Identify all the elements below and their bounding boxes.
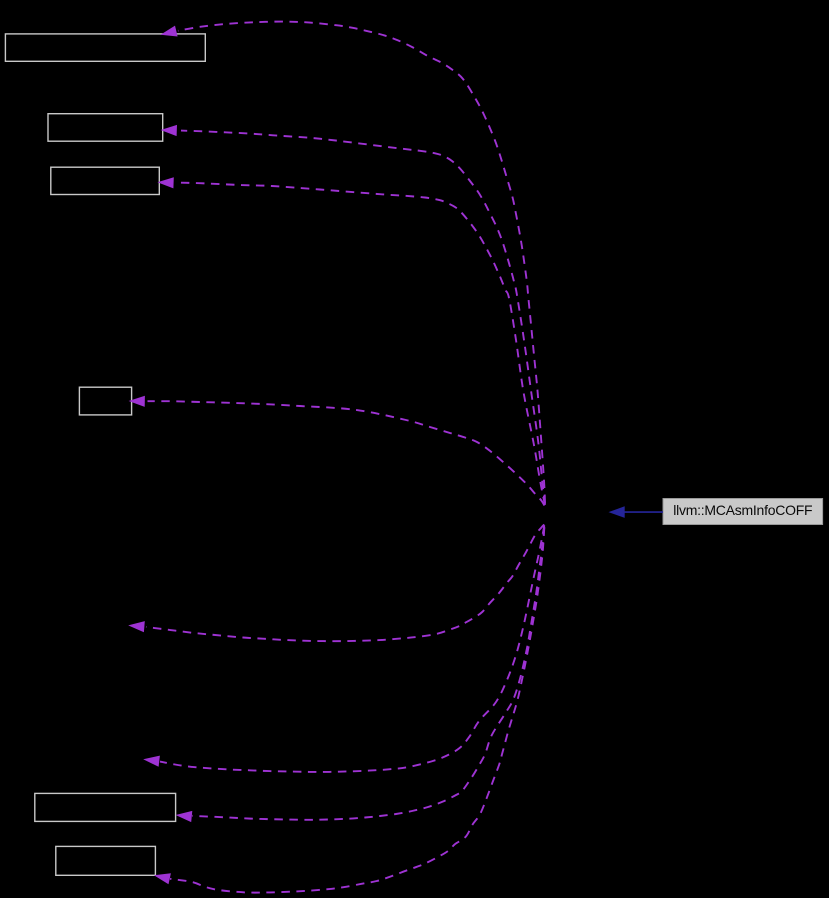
- node MCAsmInfo member 1 (top-left): [5, 34, 205, 61]
- node MCAsmInfo member 6 (bottom): [56, 846, 156, 875]
- arrowhead of edge to member 6: [154, 873, 171, 884]
- arrowhead of edge to hidden node A: [128, 621, 145, 632]
- node MCAsmInfo member 4 (small): [79, 387, 131, 415]
- wire: solid inheritance edge: [624, 511, 663, 513]
- wire: dashed edge to hidden node B: [160, 526, 544, 772]
- arrowhead of edge to member 2: [161, 125, 177, 136]
- wire: dashed edge to member 1: [178, 22, 545, 503]
- node MCAsmInfo member 5 (bottom): [35, 793, 176, 821]
- wire: dashed edge to hidden node A: [146, 525, 544, 642]
- wire: dashed edge to member 3: [177, 183, 545, 505]
- node MCAsmInfo member 3: [51, 167, 160, 194]
- svg-text:llvm::MCAsmInfoCOFF: llvm::MCAsmInfoCOFF: [673, 502, 812, 518]
- arrowhead of edge to member 3: [157, 177, 173, 188]
- node MCAsmInfo member 2: [48, 114, 163, 142]
- arrowhead of edge to member 5: [176, 811, 193, 822]
- wire: dashed edge to member 2: [181, 131, 545, 504]
- wire: dashed edge to member 5: [192, 527, 544, 820]
- arrowhead of edge to member 1: [161, 26, 178, 37]
- wire: dashed edge to member 4: [148, 401, 545, 505]
- arrowhead of inheritance edge: [609, 506, 625, 518]
- node llvm::MCAsmInfoCOFF: [663, 499, 823, 525]
- arrowhead of edge to hidden node B: [143, 756, 160, 767]
- arrowhead of edge to member 4: [129, 396, 145, 407]
- wire: dashed edge to member 6: [170, 528, 544, 893]
